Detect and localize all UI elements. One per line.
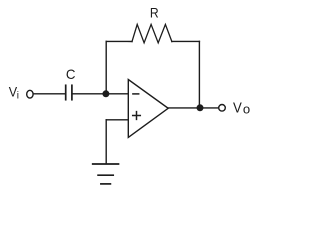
- op-amp minus sign (inverting input): [133, 93, 139, 95]
- wire right vertical (feedback to output): [198, 41, 200, 107]
- output terminal Vo: [219, 105, 226, 112]
- wire feedback left vertical: [105, 41, 107, 93]
- svg-text:V: V: [233, 101, 242, 117]
- wire non-inverting input horizontal: [106, 119, 128, 121]
- op-amp U1 triangle: [128, 80, 168, 138]
- op-amp plus sign (non-inverting input): [133, 112, 141, 120]
- input terminal Vi: [27, 90, 33, 98]
- Vi label: [9, 83, 19, 101]
- svg-text:i: i: [17, 90, 19, 101]
- wire to ground vertical: [105, 120, 107, 164]
- node B (output junction dot): [197, 104, 204, 111]
- wire output from op-amp: [168, 107, 219, 109]
- wire input to capacitor: [34, 93, 65, 95]
- node A (summing junction dot): [102, 90, 109, 97]
- wire top left horizontal: [106, 40, 132, 42]
- svg-text:R: R: [150, 6, 159, 22]
- svg-text:C: C: [66, 66, 76, 82]
- Vo label: [233, 101, 250, 117]
- capacitor C: [66, 85, 72, 99]
- svg-text:o: o: [243, 102, 250, 116]
- ground symbol: [93, 164, 119, 184]
- wire top right horizontal: [172, 40, 200, 42]
- resistor R: [132, 24, 172, 42]
- wire capacitor to op-amp inverting input: [73, 93, 129, 95]
